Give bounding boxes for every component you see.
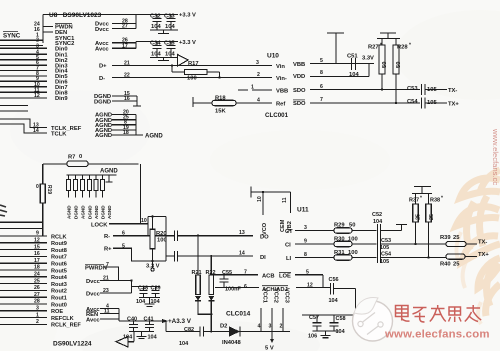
capacitor C55 <box>220 275 229 288</box>
svg-text:ACB: ACB <box>262 274 275 280</box>
resistor R19 <box>40 164 45 236</box>
svg-text:*: * <box>380 43 382 49</box>
wire SYNC2 <box>0 44 43 46</box>
svg-text:12: 12 <box>34 238 40 244</box>
svg-text:R20: R20 <box>156 231 167 237</box>
svg-text:100: 100 <box>348 250 358 256</box>
svg-text:*: * <box>409 43 411 49</box>
svg-text:Rout4: Rout4 <box>51 275 68 281</box>
capacitor C35 <box>167 42 176 58</box>
svg-text:Vin: Vin <box>276 64 285 70</box>
svg-text:3: 3 <box>36 306 39 312</box>
capacitor C36 <box>175 231 241 242</box>
resistor R38 <box>426 194 432 259</box>
svg-text:TX-: TX- <box>448 88 457 94</box>
power tap T3 above R37 R38 <box>412 187 432 194</box>
svg-text:C53: C53 <box>381 238 391 244</box>
svg-text:LI: LI <box>286 256 292 262</box>
capacitor C32 <box>153 15 162 31</box>
capacitor C53 <box>422 84 448 95</box>
svg-text:100: 100 <box>187 76 197 82</box>
svg-text:104: 104 <box>123 335 133 341</box>
svg-text:CLC014: CLC014 <box>226 310 251 317</box>
svg-text:VBB: VBB <box>293 62 305 68</box>
svg-text:26: 26 <box>34 285 40 291</box>
svg-text:25: 25 <box>416 214 422 220</box>
svg-text:8: 8 <box>304 252 307 258</box>
resistor R12 <box>94 175 98 198</box>
U11 pin11 wire <box>289 192 291 213</box>
svg-text:22: 22 <box>124 72 130 78</box>
svg-text:U10: U10 <box>267 53 279 60</box>
svg-text:5: 5 <box>122 243 125 249</box>
svg-text:Rout9: Rout9 <box>51 241 67 247</box>
svg-text:3.3 V: 3.3 V <box>146 264 160 270</box>
svg-text:CI: CI <box>285 243 291 249</box>
svg-text:5: 5 <box>306 269 309 275</box>
svg-text:R39: R39 <box>440 235 451 241</box>
svg-text:Rout3: Rout3 <box>51 282 67 288</box>
svg-text:U8 DS90LV1023: U8 DS90LV1023 <box>49 12 102 19</box>
wire Dvcc pin21 <box>100 280 132 282</box>
svg-text:1: 1 <box>251 84 254 90</box>
svg-text:AGND: AGND <box>94 205 99 219</box>
svg-text:4: 4 <box>258 324 261 330</box>
svg-text:104: 104 <box>151 52 161 58</box>
svg-text:15: 15 <box>34 244 40 250</box>
svg-text:105: 105 <box>380 245 389 251</box>
svg-text:100nF: 100nF <box>225 286 242 292</box>
svg-text:R7: R7 <box>68 155 75 161</box>
resistor R10 <box>81 175 85 198</box>
U11 pin10/11 rail <box>251 187 290 198</box>
pin Avcc REN labels <box>86 304 110 324</box>
resistor R27 R28 labels <box>368 43 411 69</box>
bottom IC left pin names <box>51 234 81 328</box>
svg-text:VCC2: VCC2 <box>273 288 279 303</box>
wire C57 C58 rail <box>302 314 355 316</box>
svg-text:LOE: LOE <box>279 274 291 280</box>
svg-text:Rout8: Rout8 <box>51 248 67 254</box>
resistor R20 <box>150 215 155 262</box>
svg-text:AGND: AGND <box>81 205 86 219</box>
svg-text:17: 17 <box>122 43 128 49</box>
U10 pin5 wire VBB <box>310 63 374 65</box>
capacitor C40 C41 labels <box>123 316 158 340</box>
wire Din8 <box>0 91 47 93</box>
ground below C34 C35 <box>150 58 178 61</box>
ground below C57 C58 <box>313 331 339 338</box>
svg-text:27: 27 <box>122 24 128 30</box>
wire Din9 <box>0 97 47 99</box>
U11 right pin labels <box>222 225 313 293</box>
svg-text:105: 105 <box>380 259 389 265</box>
svg-text:AGND: AGND <box>145 134 163 140</box>
wire A3.3V rail <box>119 319 168 323</box>
resistor R31 labels <box>334 250 358 256</box>
wire Din5 <box>0 75 47 77</box>
capacitor C53 bottom labels <box>380 238 391 251</box>
wire TCLK <box>0 124 47 133</box>
svg-text:12: 12 <box>34 93 40 99</box>
svg-text:11: 11 <box>104 309 110 315</box>
svg-text:R22: R22 <box>206 270 216 276</box>
capacitor C52 C53 C54 plates <box>378 224 381 263</box>
svg-text:C54: C54 <box>381 251 392 257</box>
svg-text:R17: R17 <box>188 61 199 67</box>
U11 top pin labels <box>257 196 293 235</box>
svg-text:TCLK: TCLK <box>51 131 67 137</box>
left edge scan marks <box>0 205 7 216</box>
svg-text:105: 105 <box>427 87 437 93</box>
svg-text:104: 104 <box>373 219 383 225</box>
wire Din2 <box>0 59 47 61</box>
svg-text:AGND: AGND <box>67 205 72 219</box>
wire termination loop <box>148 216 166 261</box>
svg-text:Rout1: Rout1 <box>51 296 67 302</box>
svg-text:R28: R28 <box>397 45 408 51</box>
svg-text:14: 14 <box>33 128 39 134</box>
svg-text:2: 2 <box>257 72 260 78</box>
svg-text:www.elecfans.com: www.elecfans.com <box>384 329 490 341</box>
svg-text:C55: C55 <box>222 270 232 276</box>
svg-text:25: 25 <box>429 214 435 220</box>
op-amp U10 labels <box>251 53 323 119</box>
resistor R29 <box>334 228 377 233</box>
svg-text:Rout0: Rout0 <box>51 302 67 308</box>
wire AGND pins <box>112 115 143 136</box>
svg-text:R29: R29 <box>334 223 345 229</box>
U8 right pin names <box>94 22 112 140</box>
svg-text:SYNC: SYNC <box>3 33 21 40</box>
capacitor C54 bottom labels <box>380 251 392 264</box>
power tap T1 above pin5 <box>327 33 344 64</box>
wire LOCK pin10 <box>109 223 148 225</box>
wire U11 VCC3 <box>282 308 284 332</box>
svg-text:+3.3 V: +3.3 V <box>179 13 196 19</box>
wire DGND pin15 <box>112 95 137 97</box>
svg-text:C53: C53 <box>407 86 418 92</box>
resistor R28 <box>393 39 399 105</box>
resistor R11 <box>88 175 92 198</box>
wire Din6 <box>0 80 47 82</box>
svg-text:2: 2 <box>280 324 283 330</box>
U8 right pin numbers <box>122 19 130 136</box>
svg-text:LOCK: LOCK <box>91 222 108 228</box>
wire U11 VCC2 <box>271 308 273 332</box>
svg-text:0: 0 <box>79 154 82 160</box>
wire Avcc pin17 <box>112 47 136 49</box>
svg-text:PWRDN: PWRDN <box>85 265 107 271</box>
orange flower watermark <box>456 170 500 316</box>
capacitor C56 <box>331 283 356 315</box>
resistor R21 R22 labels <box>192 270 216 276</box>
svg-text:C38: C38 <box>138 285 148 291</box>
svg-text:R37: R37 <box>409 198 419 204</box>
svg-text:DO: DO <box>260 235 269 241</box>
wire U11 pin5 row <box>210 275 323 288</box>
svg-text:21: 21 <box>124 60 130 66</box>
svg-text:R19: R19 <box>46 185 52 194</box>
svg-text:DI: DI <box>260 255 266 261</box>
buffer triangle <box>178 55 189 67</box>
svg-text:104: 104 <box>329 298 339 304</box>
svg-text:9: 9 <box>304 239 307 245</box>
svg-text:C58: C58 <box>336 316 346 322</box>
svg-text:TX+: TX+ <box>478 252 489 258</box>
svg-text:R-: R- <box>104 234 110 240</box>
resistor R27 <box>379 39 385 91</box>
svg-text:25: 25 <box>453 235 460 241</box>
capacitor C57 <box>313 315 322 331</box>
svg-text:104: 104 <box>336 329 346 335</box>
wire SYNC1 <box>0 39 43 41</box>
termination T on row A <box>381 225 408 231</box>
U11 bottom pin labels <box>258 288 290 330</box>
resistor R17 <box>171 64 221 78</box>
wire stub rows <box>0 106 28 112</box>
resistor R9 <box>74 175 78 198</box>
svg-text:13: 13 <box>239 230 245 236</box>
svg-text:10: 10 <box>141 218 147 224</box>
svg-text:C51: C51 <box>347 54 358 60</box>
svg-text:17: 17 <box>34 258 40 264</box>
svg-text:R31: R31 <box>334 250 345 256</box>
svg-text:104: 104 <box>179 341 189 347</box>
capacitor C32 C33 labels <box>150 13 196 31</box>
wire VBB pin1 (dashed stub) <box>238 89 272 91</box>
oscillator triangle <box>116 332 134 348</box>
svg-text:DGND: DGND <box>74 205 79 219</box>
svg-text:SDO: SDO <box>293 101 306 107</box>
resistor R19 labels <box>36 184 52 194</box>
svg-text:6: 6 <box>320 84 323 90</box>
svg-text:104: 104 <box>165 52 175 58</box>
pin LOCK labels <box>91 218 147 228</box>
resistor R8 <box>67 175 71 198</box>
svg-text:50: 50 <box>349 223 355 229</box>
svg-text:U11: U11 <box>297 206 309 213</box>
resistor R40 <box>446 254 477 259</box>
capacitor C34 <box>153 42 162 58</box>
wire U11 pin8 row <box>295 257 334 259</box>
svg-text:TX-: TX- <box>478 239 487 245</box>
wire 5V tap <box>270 332 274 344</box>
svg-text:14: 14 <box>239 250 245 256</box>
svg-text:VDD: VDD <box>293 74 305 80</box>
svg-text:D-: D- <box>99 76 105 82</box>
svg-text:C82: C82 <box>184 327 194 333</box>
capacitor C38 <box>139 287 160 298</box>
wire Din4 <box>0 70 47 72</box>
wire REN pin11 <box>100 313 119 315</box>
wire U11 pin12 row <box>215 286 330 288</box>
svg-text:7: 7 <box>244 269 247 275</box>
svg-text:25: 25 <box>34 278 40 284</box>
capacitor C37 <box>166 251 241 262</box>
svg-text:+A3.3 V: +A3.3 V <box>168 318 192 325</box>
capacitor C54 top labels <box>407 99 459 107</box>
svg-text:C54: C54 <box>407 99 418 105</box>
svg-text:D2: D2 <box>220 323 227 329</box>
U11 left pin labels <box>239 230 269 261</box>
svg-text:3: 3 <box>304 225 307 231</box>
svg-text:C41: C41 <box>144 316 154 322</box>
wire Avcc rail <box>136 42 178 49</box>
svg-text:3: 3 <box>256 60 259 66</box>
capacitor C54 <box>422 98 448 109</box>
wire row B after C53 <box>381 243 447 245</box>
svg-text:104: 104 <box>148 335 158 341</box>
svg-text:VCC3: VCC3 <box>284 288 290 303</box>
red watermark CJK text (drawn strokes) <box>396 305 482 322</box>
svg-text:11: 11 <box>282 197 288 203</box>
svg-text:7: 7 <box>106 262 109 268</box>
ground below C38 C39 <box>139 298 160 307</box>
svg-text:15K: 15K <box>215 109 226 115</box>
svg-text:C34: C34 <box>150 41 161 47</box>
svg-text:16: 16 <box>124 96 130 102</box>
wire TCLK_REF <box>0 119 47 127</box>
wire Dvcc pin23 <box>100 279 139 293</box>
svg-text:TX+: TX+ <box>448 102 459 108</box>
svg-text:+3.3 V: +3.3 V <box>179 40 196 46</box>
svg-text:18: 18 <box>123 130 129 136</box>
U11 pin10 wire <box>262 192 264 215</box>
svg-text:AGND: AGND <box>100 169 118 175</box>
capacitor C52 labels <box>372 212 383 225</box>
resistor R39 labels <box>440 235 487 245</box>
svg-text:Avcc: Avcc <box>95 47 109 53</box>
svg-text:*: * <box>420 196 422 202</box>
svg-text:Rout6: Rout6 <box>51 262 67 268</box>
U8 left pin names <box>51 25 82 138</box>
svg-text:R21: R21 <box>192 270 202 276</box>
svg-text:Avcc: Avcc <box>86 317 100 323</box>
wire U10 pin6 SDO <box>310 89 420 91</box>
resistor R39 <box>446 241 477 246</box>
svg-text:REFCLK: REFCLK <box>51 316 74 322</box>
svg-text:104: 104 <box>136 299 146 305</box>
svg-text:SDO: SDO <box>293 88 306 94</box>
capacitor C56 labels <box>262 272 339 303</box>
svg-text:6: 6 <box>244 284 247 290</box>
svg-text:DGND: DGND <box>101 205 106 219</box>
resistor ladder rail <box>67 174 117 176</box>
resistor R30 labels <box>334 236 358 242</box>
pin R+ labels <box>104 243 125 252</box>
svg-text:104: 104 <box>151 299 161 305</box>
ground below C32 C33 <box>150 30 178 34</box>
svg-text:104: 104 <box>349 72 359 78</box>
wire D- <box>112 77 272 79</box>
svg-text:8: 8 <box>320 70 323 76</box>
svg-text:R30: R30 <box>334 236 345 242</box>
pin R- labels <box>104 231 125 240</box>
svg-text:R+: R+ <box>104 247 112 253</box>
svg-text:Din9: Din9 <box>55 96 68 102</box>
resistor R17 labels <box>187 61 199 82</box>
resistor R21 <box>195 235 211 315</box>
svg-text:0: 0 <box>36 184 39 190</box>
svg-text:Rout7: Rout7 <box>51 255 67 261</box>
svg-text:5: 5 <box>320 58 323 64</box>
IC U8 top power wire <box>43 15 178 29</box>
svg-text:R38: R38 <box>430 198 440 204</box>
wire R- row <box>113 235 174 237</box>
capacitor C39 <box>152 287 160 298</box>
svg-text:10: 10 <box>257 196 263 202</box>
svg-text:RCLK_REF: RCLK_REF <box>51 323 81 329</box>
svg-text:24: 24 <box>34 272 40 278</box>
wire R7 to LOCK net <box>139 164 141 224</box>
svg-text:Dvcc: Dvcc <box>95 27 110 33</box>
svg-text:AGND: AGND <box>95 133 112 139</box>
svg-text:23: 23 <box>103 288 109 294</box>
capacitor C51 <box>352 58 356 70</box>
wire Din3 <box>0 64 47 66</box>
resistor R20 labels <box>156 231 167 244</box>
svg-text:18: 18 <box>34 265 40 271</box>
svg-text:C40: C40 <box>127 316 137 322</box>
svg-text:28: 28 <box>34 299 40 305</box>
svg-text:Rout2: Rout2 <box>51 289 67 295</box>
bottom IC left pin wires <box>0 222 47 324</box>
U8 left pin numbers <box>33 22 40 135</box>
svg-text:21: 21 <box>103 276 109 282</box>
resistor R30 <box>334 241 377 246</box>
svg-text:R27: R27 <box>368 45 379 51</box>
wire U11 pin9 row <box>295 243 334 245</box>
wire Avcc pin26 <box>112 42 136 44</box>
resistor R31 <box>334 255 377 260</box>
wire ladder right tap <box>106 175 113 182</box>
svg-text:5 V: 5 V <box>265 345 274 351</box>
svg-text:9: 9 <box>36 231 39 237</box>
white embossed logo circle <box>353 298 393 341</box>
wire Avcc pin4 <box>100 308 119 310</box>
wire row C after C54 <box>381 257 447 259</box>
wire DGND pin16 <box>112 96 141 106</box>
svg-text:7: 7 <box>320 97 323 103</box>
wire C36 to U11 pin13 <box>241 235 254 237</box>
svg-text:ROE: ROE <box>51 309 63 315</box>
svg-text:C57: C57 <box>309 315 319 321</box>
wire Din1 <box>0 53 47 55</box>
wire Din0 <box>0 47 47 49</box>
svg-text:16: 16 <box>34 251 40 257</box>
wire Avcc pin1 <box>100 309 119 322</box>
svg-text:C33: C33 <box>164 14 175 20</box>
wire U11 pin3 row <box>295 230 334 232</box>
resistor R7 labels <box>68 154 82 161</box>
svg-text:4: 4 <box>257 97 260 103</box>
svg-text:DGND: DGND <box>88 205 93 219</box>
svg-text:3.3V: 3.3V <box>362 56 374 62</box>
pin PWRDN labels <box>85 262 109 271</box>
svg-text:DGND: DGND <box>94 99 111 105</box>
svg-text:IN4048: IN4048 <box>222 340 241 346</box>
op-amp U11 reference labels <box>226 206 309 317</box>
power tap T2 above R27 R28 <box>377 33 400 39</box>
resistor R18 labels <box>215 96 226 115</box>
svg-text:C56: C56 <box>329 277 339 283</box>
svg-text:100: 100 <box>157 238 167 244</box>
resistor R18 <box>193 97 272 107</box>
resistor R22 <box>208 255 214 333</box>
svg-text:*: * <box>441 196 443 202</box>
svg-text:R18: R18 <box>215 96 226 102</box>
